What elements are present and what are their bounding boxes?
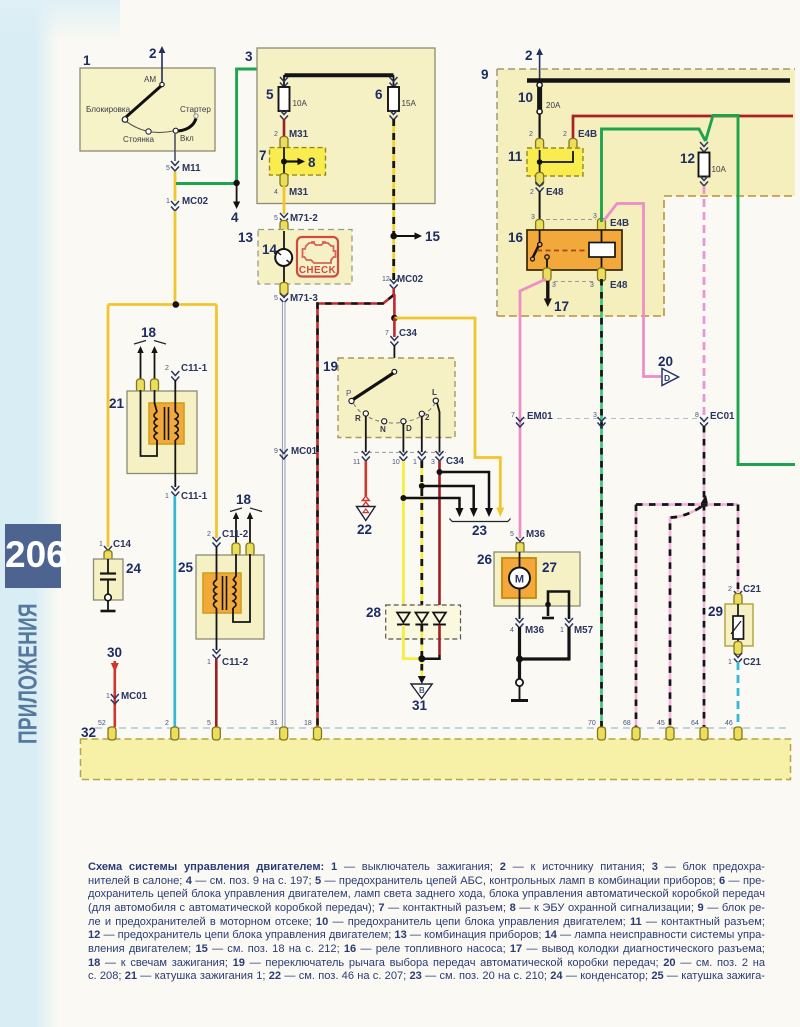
svg-text:24: 24 (126, 561, 142, 576)
svg-text:C34: C34 (446, 456, 465, 467)
diode 1 (397, 613, 410, 625)
contact Блокировка (86, 105, 131, 122)
ECU connector face line (95, 727, 790, 729)
svg-text:MC02: MC02 (397, 274, 424, 285)
svg-text:2: 2 (274, 131, 278, 138)
wire pink-black dashed EC01 down (703, 426, 706, 727)
svg-text:3: 3 (431, 459, 435, 466)
arrow 2 (power source, right) (525, 48, 543, 80)
svg-text:2: 2 (530, 189, 534, 196)
node 8 branch (281, 159, 287, 165)
yellow horizontal distribution (108, 303, 217, 306)
wire yellow to arrow 23 group (394, 318, 500, 508)
relay contacts and arm (531, 230, 588, 270)
ground below 24 (101, 594, 116, 611)
svg-text:2: 2 (728, 586, 732, 593)
connector EM01 (511, 411, 553, 427)
svg-text:E4B: E4B (578, 129, 597, 140)
svg-text:7: 7 (511, 412, 515, 419)
arrow 30 input MC01 (106, 645, 148, 727)
svg-text:30: 30 (107, 645, 122, 660)
svg-text:16: 16 (508, 230, 524, 245)
connector C14 (99, 539, 132, 564)
wire green long branch (706, 116, 796, 465)
node green junction (233, 180, 239, 186)
svg-text:C21: C21 (743, 584, 762, 595)
node AM (144, 75, 164, 87)
svg-text:C34: C34 (399, 328, 418, 339)
svg-text:1: 1 (83, 53, 91, 68)
box 29: sensor resistor (708, 604, 753, 648)
svg-text:Стоянка: Стоянка (123, 135, 155, 144)
box 19: transmission range switch (323, 358, 455, 438)
svg-text:M11: M11 (182, 163, 201, 174)
svg-text:3: 3 (590, 282, 594, 289)
svg-text:32: 32 (81, 725, 96, 740)
svg-text:22: 22 (357, 522, 372, 537)
wire dark red from L (438, 461, 441, 613)
svg-text:D: D (664, 373, 670, 383)
wire red to node C34 (393, 294, 396, 318)
svg-text:31: 31 (412, 698, 428, 713)
wire red C34 (393, 318, 396, 337)
svg-text:В: В (419, 686, 425, 695)
fuse 12 (10A) (680, 142, 727, 186)
wire dark red feed (573, 116, 793, 141)
arrow 4 (see pos.9 p.197) (231, 184, 240, 225)
svg-text:2: 2 (529, 131, 533, 138)
svg-text:3: 3 (593, 213, 597, 220)
svg-text:45: 45 (657, 720, 665, 727)
connector C11-1 pin1 (165, 486, 208, 502)
pump ground wires (518, 627, 571, 679)
yellow arrowhead (496, 508, 504, 518)
svg-text:M31: M31 (289, 129, 309, 140)
svg-text:M36: M36 (525, 625, 545, 636)
box 1: ignition switch (80, 53, 215, 151)
svg-text:4: 4 (274, 189, 278, 196)
svg-text:Блокировка: Блокировка (86, 105, 131, 114)
svg-text:C11-2: C11-2 (222, 657, 249, 668)
node and branch arrows 23 (400, 469, 493, 517)
svg-text:3: 3 (552, 282, 556, 289)
wire grey double M71-3 to ECU pin31 (282, 302, 286, 727)
svg-text:Стартер: Стартер (180, 105, 211, 114)
exit wires of box 19 (366, 403, 440, 452)
svg-text:1: 1 (728, 659, 732, 666)
svg-text:CHECK: CHECK (299, 265, 336, 276)
wire yellow-black dashed from 2 (420, 461, 423, 613)
bracket 23 (450, 519, 511, 539)
wire yellow-black dashed fuse6 to MC02 (392, 119, 395, 280)
wire cyan dashed C21 to ECU pin46 (737, 662, 740, 727)
connector M31 pin2 (274, 129, 309, 150)
box 16: fuel pump relay (508, 230, 622, 270)
svg-text:MC01: MC01 (121, 691, 148, 702)
svg-text:4: 4 (510, 627, 514, 634)
fuse 6 (15A) (375, 75, 417, 120)
svg-text:3: 3 (531, 214, 535, 221)
connector C21 pin2 (728, 584, 762, 607)
coil 21 internal wires (141, 380, 176, 487)
lamp 14 check engine lamp (262, 231, 292, 285)
box 32: engine control unit (81, 725, 791, 780)
svg-text:M: M (515, 574, 524, 586)
arrow 20 (see pos.2 p.208) (658, 354, 679, 386)
svg-text:EM01: EM01 (527, 411, 553, 422)
wire pink dashed fuse12 to EC01 (703, 186, 706, 418)
contact Стартер (178, 105, 211, 131)
svg-text:7: 7 (385, 330, 389, 337)
connector M57 pin1 (560, 618, 594, 636)
svg-text:MC01: MC01 (291, 446, 318, 457)
wire green fuse12 feed to relay (602, 129, 706, 222)
wire through box 7 (283, 147, 285, 176)
ECU pin 45 (657, 720, 674, 740)
svg-text:M36: M36 (526, 529, 546, 540)
ground triangle 22 (357, 496, 376, 537)
svg-text:12: 12 (680, 151, 695, 166)
svg-text:1: 1 (413, 459, 417, 466)
svg-text:27: 27 (542, 560, 557, 575)
connector C11-2 pin1 (207, 649, 249, 668)
wire green from box 3 (176, 69, 285, 184)
label 18 spark plugs (coil 2) (230, 492, 262, 556)
svg-text:1: 1 (99, 541, 103, 548)
svg-text:2: 2 (149, 46, 157, 61)
ECU pin 46 (725, 720, 742, 740)
arrow 17 diagnostic connector (544, 281, 569, 314)
svg-text:E48: E48 (546, 187, 564, 198)
node 15 branch (390, 233, 397, 240)
wire pink-black dashed to ECU pin68 (635, 505, 638, 728)
fuse 5 (10A) (266, 75, 308, 120)
svg-text:M71-2: M71-2 (290, 213, 318, 224)
connector E48 below box 11 (530, 173, 564, 199)
wire yellow down to junction (174, 211, 177, 305)
svg-text:MC02: MC02 (182, 196, 209, 207)
link line EM01-EC01 (521, 418, 703, 420)
connector row above relay (531, 213, 629, 233)
svg-text:2: 2 (165, 720, 169, 727)
svg-text:Вкл: Вкл (180, 134, 194, 143)
wire pink-black dashed to ECU pin45 (670, 507, 701, 727)
svg-text:15: 15 (425, 229, 441, 244)
ECU pin 31 (270, 720, 288, 740)
wire pink relay coil top to arrow 20 (604, 204, 662, 377)
svg-text:1: 1 (166, 198, 170, 205)
svg-text:2: 2 (563, 131, 567, 138)
svg-text:21: 21 (109, 396, 125, 411)
ECU pin 64 (691, 720, 708, 740)
connector M71-2 (274, 213, 318, 224)
svg-text:10A: 10A (293, 99, 308, 108)
wire green-black dashed relay to ECU pin70 (600, 279, 603, 727)
wire yellow from D (402, 461, 405, 613)
contact arc with R N D 2 L (354, 388, 439, 434)
svg-text:18: 18 (304, 720, 312, 727)
svg-text:C14: C14 (113, 539, 132, 550)
svg-text:3: 3 (245, 49, 253, 64)
box 21: ignition coil 1 (109, 391, 197, 474)
connector C34 pin7 (385, 328, 418, 346)
connector M36 pin4 (510, 618, 545, 636)
svg-text:28: 28 (366, 605, 382, 620)
svg-text:13: 13 (238, 230, 254, 245)
wires below diode block (403, 625, 439, 676)
svg-text:10: 10 (518, 90, 533, 105)
legend caption (88, 861, 765, 984)
svg-text:5: 5 (274, 295, 278, 302)
connector C11-1 pin2 (165, 363, 208, 381)
svg-text:C11-1: C11-1 (181, 491, 208, 502)
svg-text:2: 2 (165, 365, 169, 372)
node yellow branch (391, 315, 398, 322)
contact arc Стоянка (123, 122, 173, 144)
connector M71-3 (274, 283, 318, 305)
svg-text:52: 52 (98, 720, 106, 727)
box 28: diode block (366, 605, 461, 639)
wire cyan C11-1 to ECU pin2 (173, 496, 176, 727)
svg-text:17: 17 (554, 299, 569, 314)
CHECK engine icon (297, 237, 338, 277)
wire yellow left branch to C14 (107, 305, 110, 548)
svg-text:15A: 15A (402, 99, 417, 108)
svg-text:АМ: АМ (144, 75, 156, 84)
svg-text:C21: C21 (743, 657, 762, 668)
svg-text:8: 8 (308, 155, 316, 170)
svg-text:9: 9 (274, 448, 278, 455)
connector row C34 below box 19 (353, 451, 465, 467)
box 7: contact connector (259, 148, 326, 176)
svg-text:E4B: E4B (610, 218, 629, 229)
svg-text:4: 4 (231, 210, 239, 225)
box 13: instrument cluster (238, 230, 352, 285)
svg-text:26: 26 (477, 552, 493, 567)
bus bar in box 9 (527, 78, 790, 83)
connector MC02 (166, 196, 209, 211)
connector MC01 (274, 446, 318, 459)
ECU pin 52 (98, 720, 116, 740)
svg-text:5: 5 (274, 215, 278, 222)
connector pin3 on green-black wire (593, 412, 606, 427)
svg-text:10: 10 (392, 459, 400, 466)
svg-text:P: P (346, 389, 351, 398)
wire red to ground 22 (364, 461, 367, 496)
box 27: pump motor (502, 552, 557, 619)
svg-text:46: 46 (725, 720, 733, 727)
wire dark red fuse5 to M31 (283, 119, 286, 140)
wire pink-black dashed to sensor 29 (737, 505, 740, 593)
svg-text:11: 11 (508, 149, 523, 164)
wire dark red C11-2 to ECU pin5 (215, 659, 218, 727)
svg-text:1: 1 (165, 493, 169, 500)
wire pink relay to EM01/M36 (520, 279, 546, 538)
ECU pin 70 (588, 720, 606, 740)
ground triangle 31 (411, 676, 432, 713)
svg-text:25: 25 (178, 560, 194, 575)
connector C11-2 pin2 (207, 529, 249, 547)
svg-text:68: 68 (623, 720, 631, 727)
svg-text:5: 5 (266, 87, 274, 102)
coil 25 transformer (203, 573, 241, 613)
ECU pin 2 (165, 720, 179, 740)
connector M31 pin4 (274, 174, 309, 199)
diode 3 (433, 613, 446, 625)
node yellow (173, 301, 180, 308)
svg-text:20A: 20A (546, 101, 561, 110)
svg-text:D: D (406, 424, 412, 433)
label 18 spark plugs (coil 1) (134, 325, 166, 392)
fuel sender bracket (542, 592, 569, 620)
wires inside box 11 (540, 150, 573, 174)
svg-text:EC01: EC01 (710, 411, 735, 422)
svg-text:18: 18 (236, 492, 252, 507)
wire from Вкл down (174, 133, 176, 161)
svg-text:8: 8 (695, 412, 699, 419)
svg-text:M57: M57 (574, 625, 594, 636)
wire pink-black dashed sensor bus (636, 503, 738, 506)
connector EC01 (695, 411, 735, 427)
connector row below relay (543, 268, 628, 291)
diode 2 (415, 613, 428, 625)
connector M36 pin5 (510, 529, 546, 556)
wire yellow into box 13 (283, 222, 286, 231)
wire red-black dashed branch to ECU pin18 (318, 295, 394, 727)
bus bar in box 3 (285, 73, 394, 77)
relay coil (589, 230, 615, 270)
svg-text:5: 5 (166, 165, 170, 172)
svg-text:C11-1: C11-1 (181, 363, 208, 374)
svg-text:20: 20 (658, 354, 673, 369)
page number badge (5, 524, 61, 588)
connector M11 (166, 161, 201, 174)
box 24: condenser (94, 559, 142, 600)
svg-text:N: N (380, 425, 386, 434)
connector E4B (529, 129, 597, 152)
svg-text:L: L (432, 388, 437, 397)
arrow 8 (to alarm ECU) (284, 155, 316, 170)
arrow 15 (see pos.18 p.212) (394, 229, 441, 244)
svg-text:12: 12 (382, 276, 390, 283)
box 9: engine bay relay/fuse box (481, 67, 795, 316)
svg-text:19: 19 (323, 359, 338, 374)
capacitor 24 (100, 559, 116, 594)
box 25: ignition coil 2 (178, 555, 264, 639)
ECU pin 68 (623, 720, 640, 740)
ECU pin 5 (207, 720, 220, 740)
box 11: contact connector (508, 148, 583, 176)
svg-text:18: 18 (141, 325, 157, 340)
svg-text:1: 1 (207, 659, 211, 666)
ECU pin 18 (304, 720, 322, 740)
svg-text:2: 2 (525, 48, 533, 63)
svg-text:6: 6 (375, 87, 383, 102)
connector MC02 pin12 (382, 274, 424, 289)
coil 25 internal wires (217, 546, 251, 650)
ground below pump (511, 679, 528, 701)
svg-text:1: 1 (560, 627, 564, 634)
node Вкл (173, 128, 194, 143)
svg-text:2: 2 (425, 413, 430, 422)
fuse 10 (20A) (518, 82, 561, 114)
svg-text:3: 3 (593, 412, 597, 419)
connector C21 pin1 (728, 642, 762, 669)
sidebar title (15, 601, 53, 744)
svg-text:5: 5 (207, 720, 211, 727)
switch arm blade (126, 86, 161, 117)
wire yellow ignition feed (174, 172, 177, 201)
svg-text:1: 1 (106, 693, 110, 700)
svg-text:M31: M31 (289, 187, 309, 198)
svg-text:E48: E48 (610, 280, 628, 291)
svg-text:R: R (355, 414, 361, 423)
svg-text:7: 7 (259, 148, 267, 163)
svg-text:23: 23 (472, 523, 488, 538)
svg-text:M71-3: M71-3 (290, 293, 318, 304)
wire yellow right branch to C11-2 (215, 305, 218, 539)
svg-text:70: 70 (588, 720, 596, 727)
svg-text:9: 9 (481, 67, 489, 82)
svg-text:2: 2 (207, 531, 211, 538)
switch arm P (346, 369, 397, 403)
wire black fuse10 to E4B (538, 114, 540, 141)
arrow 2 (to power source) (149, 46, 165, 82)
svg-text:C11-2: C11-2 (222, 529, 249, 540)
wire red below MC02 (392, 288, 395, 295)
svg-text:64: 64 (691, 720, 699, 727)
coil 21 transformer (149, 403, 184, 444)
wire black into box 19 (393, 345, 395, 371)
svg-text:11: 11 (353, 459, 360, 466)
box 26: fuel pump assembly (477, 552, 580, 606)
junction arrow on sensor bus (697, 495, 709, 509)
svg-text:29: 29 (708, 604, 723, 619)
box 3: interior fuse box (245, 48, 435, 204)
wire yellow to M71-2 (283, 186, 286, 214)
svg-text:31: 31 (270, 720, 278, 727)
svg-text:5: 5 (510, 531, 514, 538)
svg-text:10A: 10A (712, 165, 727, 174)
wire black to relay (539, 191, 541, 222)
